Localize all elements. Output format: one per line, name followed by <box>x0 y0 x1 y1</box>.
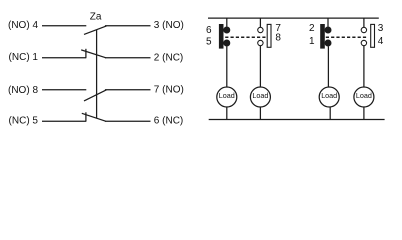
svg-text:Za: Za <box>90 11 102 22</box>
load 2 <box>250 87 270 107</box>
svg-text:2: 2 <box>309 23 315 34</box>
wire contact 5 to load <box>226 46 228 87</box>
open contact bar 3/4 <box>371 24 375 47</box>
contact 4 terminal circle <box>361 40 366 45</box>
contact NC blade row2 <box>81 50 106 58</box>
contact 5 terminal dot <box>223 40 230 47</box>
svg-text:Load: Load <box>219 91 235 100</box>
contact 6 terminal dot <box>223 27 230 34</box>
contact 8 terminal circle <box>258 40 263 45</box>
open contact bar <box>267 24 271 47</box>
contact 3 terminal circle <box>361 27 366 32</box>
wire row2 right (pin 2) <box>105 57 151 59</box>
wire rail to contact 7 <box>259 18 261 27</box>
svg-text:(NO) 4: (NO) 4 <box>8 20 38 31</box>
svg-text:8: 8 <box>275 33 281 44</box>
svg-text:Load: Load <box>252 91 268 100</box>
wire load 2 to bottom rail <box>259 107 261 120</box>
svg-text:(NC) 1: (NC) 1 <box>9 52 39 63</box>
mechanical link line <box>96 30 98 119</box>
load 1 <box>217 87 237 107</box>
svg-text:6 (NC): 6 (NC) <box>154 116 183 127</box>
closed contact bar <box>219 24 224 49</box>
contact NC fixed tick row4 <box>85 112 87 121</box>
svg-text:(NO) 8: (NO) 8 <box>8 85 38 96</box>
wire load 4 to bottom rail <box>363 107 365 120</box>
svg-text:3: 3 <box>378 23 384 34</box>
wire rail to contact 2 <box>327 18 329 27</box>
svg-text:2 (NC): 2 (NC) <box>154 52 183 63</box>
contact 7 terminal circle <box>258 27 263 32</box>
bottom supply rail <box>209 119 385 121</box>
wire rail to contact 6 <box>226 18 228 27</box>
contact NC blade row4 <box>82 113 106 121</box>
wire row4 right (pin 6) <box>105 120 151 122</box>
wire load 1 to bottom rail <box>226 107 228 120</box>
contact 1 terminal dot <box>325 40 332 47</box>
wire row1 right (pin 3) <box>105 25 151 27</box>
svg-text:1: 1 <box>309 36 315 47</box>
svg-text:3 (NO): 3 (NO) <box>154 20 184 31</box>
wire row3 left (pin 8) <box>42 89 86 91</box>
load 4 <box>354 87 374 107</box>
svg-text:7 (NO): 7 (NO) <box>154 84 184 95</box>
wire load 3 to bottom rail <box>329 107 331 120</box>
contact 2 terminal dot <box>325 27 332 34</box>
wire rail to contact 3 <box>363 18 365 27</box>
svg-text:4: 4 <box>378 36 384 47</box>
svg-text:Load: Load <box>321 91 337 100</box>
closed contact bar 2/1 <box>320 24 325 49</box>
load 3 <box>319 87 339 107</box>
wire row2 left (pin 1) <box>42 57 86 59</box>
wire contact 4 to load <box>363 46 365 87</box>
wire contact 8 to load <box>259 46 261 87</box>
svg-text:5: 5 <box>206 37 212 48</box>
wire row4 left (pin 5) <box>42 120 86 122</box>
contact NO blade row3 <box>84 90 107 101</box>
mechanical link dashes 6/5 to 7/8 <box>225 36 267 38</box>
svg-text:Load: Load <box>356 91 372 100</box>
svg-text:(NC) 5: (NC) 5 <box>9 116 39 127</box>
top supply rail <box>208 17 379 19</box>
svg-text:6: 6 <box>206 25 212 36</box>
mechanical link dashes 2/1 to 3/4 <box>326 36 368 38</box>
wire row1 left (pin 4) <box>42 25 86 27</box>
wire row3 right (pin 7) <box>105 89 151 91</box>
contact NC fixed tick row2 <box>85 49 87 58</box>
contact NO blade row1 <box>84 26 107 35</box>
wire contact 1 to load <box>327 46 329 87</box>
